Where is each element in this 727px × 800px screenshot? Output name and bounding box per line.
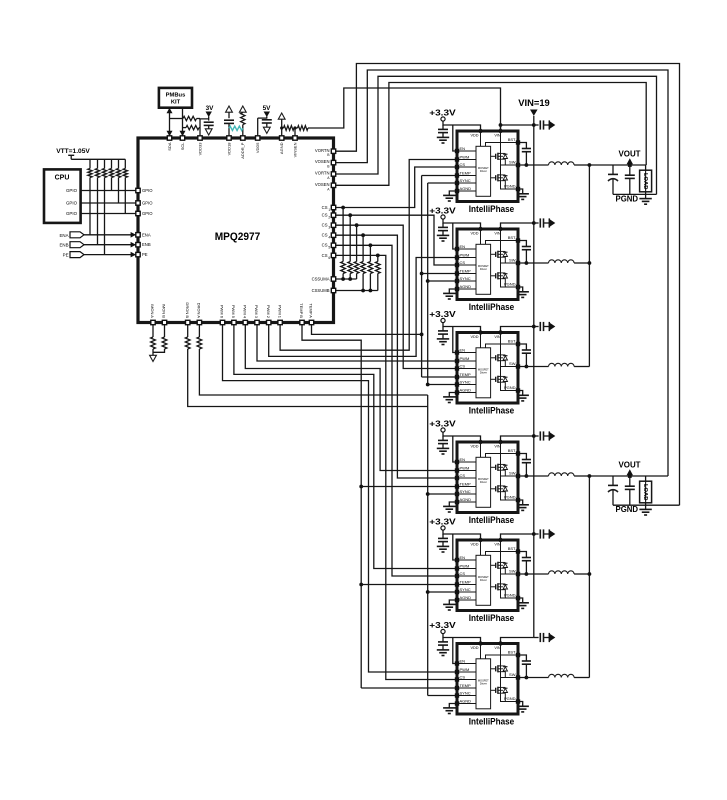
U4 right pins xyxy=(516,342,520,346)
svg-text:CS: CS xyxy=(460,571,466,576)
LOAD 1 xyxy=(645,165,647,194)
+3.3V wire to U4 VDD xyxy=(443,323,481,333)
PMBus KIT box xyxy=(159,88,192,108)
svg-text:VIN: VIN xyxy=(494,335,501,339)
U3 PGND ground xyxy=(520,287,523,292)
U4 low-side MOSFET Q6 xyxy=(495,377,497,382)
U5 internal VDD wire xyxy=(480,442,482,457)
U2 SW node wire xyxy=(501,159,517,165)
svg-text:4: 4 xyxy=(328,236,330,240)
pull-up wires to ENA ENB PE xyxy=(89,178,91,235)
SW wire with inductor L6 xyxy=(520,677,549,679)
U3 internal MOSFET driver xyxy=(476,244,491,294)
CSSUMA rail xyxy=(335,278,356,280)
U5 internal BST wire xyxy=(486,454,517,458)
svg-text:Driver: Driver xyxy=(480,578,487,582)
svg-text:PWM 5: PWM 5 xyxy=(231,305,236,319)
svg-text:SW: SW xyxy=(509,258,516,263)
U4 internal VDD wire xyxy=(480,333,482,348)
U7 HS gate wire xyxy=(491,668,496,670)
U2 HS gate wire xyxy=(491,155,496,157)
+3.3V wire to U5 VDD xyxy=(443,432,481,442)
svg-text:AGND: AGND xyxy=(460,698,472,703)
svg-text:PWM: PWM xyxy=(460,154,470,159)
U6 VDD pin xyxy=(478,538,482,542)
VIN jog wire to U4 xyxy=(501,327,534,333)
svg-text:TEMP: TEMP xyxy=(460,683,471,688)
controller U1 MPQ2977 box xyxy=(138,138,334,323)
IntelliPhase power stage U7 box xyxy=(457,644,518,715)
U4 VIN pin xyxy=(498,330,502,334)
CS3 junction xyxy=(355,223,359,227)
U3 VIN pin xyxy=(498,227,502,231)
svg-text:Driver: Driver xyxy=(480,169,487,173)
svg-text:BST: BST xyxy=(508,448,516,453)
TEMP A wire xyxy=(312,325,422,335)
bootstrap capacitor C3b xyxy=(520,344,527,350)
DRON B resistor R21 xyxy=(187,325,189,338)
CS1 junction xyxy=(341,206,345,210)
VIN distribution rail xyxy=(533,116,535,638)
U7 SW node wire xyxy=(501,672,517,678)
svg-text:DRON A: DRON A xyxy=(197,303,202,319)
svg-text:5: 5 xyxy=(328,246,330,250)
U2 high-side MOSFET Q1 xyxy=(495,154,497,159)
svg-text:SYNC: SYNC xyxy=(460,587,471,592)
IMON ground arrow xyxy=(150,355,157,361)
svg-text:Driver: Driver xyxy=(480,682,487,686)
DRON B wire xyxy=(188,349,428,407)
VIN=19 arrow xyxy=(530,110,538,116)
svg-text:TEMP: TEMP xyxy=(460,579,471,584)
VIN sense chain resistor R5 xyxy=(280,126,283,129)
svg-text:+3.3V: +3.3V xyxy=(429,517,456,527)
+3.3V wire to U6 VDD xyxy=(443,530,481,540)
svg-text:AGND: AGND xyxy=(460,387,472,392)
U4 internal MOSFET driver xyxy=(476,348,491,398)
pull-up wires to GPIO xyxy=(111,178,113,191)
svg-text:3V: 3V xyxy=(206,105,215,112)
svg-text:SDA: SDA xyxy=(167,142,172,151)
IntelliPhase power stage U6 box xyxy=(457,540,518,611)
svg-text:LOAD: LOAD xyxy=(642,173,648,189)
VTT tick xyxy=(68,154,74,156)
decoupling capacitor C1a xyxy=(442,125,444,129)
svg-text:BST: BST xyxy=(508,546,516,551)
DRON A resistor R22 xyxy=(198,325,200,338)
U4 HS drain wire to VIN xyxy=(500,333,502,355)
U6 HS drain wire to VIN xyxy=(500,540,502,562)
+3.3V wire to U7 EN xyxy=(453,638,455,664)
CS2 junction xyxy=(348,213,352,217)
CS1 wire xyxy=(335,167,455,208)
U3 left pins xyxy=(455,247,459,251)
CSSUMB rail xyxy=(335,290,377,292)
ENB wire xyxy=(84,244,136,246)
TEMP B wire xyxy=(302,325,361,689)
U2 AGND ground xyxy=(449,191,455,195)
CS6 junction xyxy=(376,254,380,258)
SYNC bus lower xyxy=(427,395,429,696)
svg-text:LOAD: LOAD xyxy=(642,484,648,500)
svg-text:EN: EN xyxy=(460,555,466,560)
IMON B resistor R20 xyxy=(164,325,166,338)
svg-text:Driver: Driver xyxy=(480,480,487,484)
decoupling capacitor C2a xyxy=(442,223,444,227)
U1 bottom pins xyxy=(151,320,155,324)
svg-text:EN: EN xyxy=(460,244,466,249)
U7 LS drain wire xyxy=(500,678,502,688)
U3 LS drain wire xyxy=(500,263,502,273)
phase group B SW bus xyxy=(588,476,590,678)
svg-text:IMON A: IMON A xyxy=(150,304,155,318)
IntelliPhase power stage U5 box xyxy=(457,442,518,513)
ground for C4a xyxy=(437,447,449,449)
U3 internal BST wire xyxy=(486,241,517,245)
svg-text:SYNC: SYNC xyxy=(460,690,471,695)
U7 high-side MOSFET Q11 xyxy=(495,666,497,671)
U7 internal VDD wire xyxy=(480,644,482,659)
CS6 wire xyxy=(335,255,455,679)
VORTN B sense wire xyxy=(335,64,679,506)
U3 low-side MOSFET Q4 xyxy=(495,273,497,278)
bracket wire VDD33 to 3V node xyxy=(200,118,209,120)
svg-text:TEMP: TEMP xyxy=(460,268,471,273)
U6 low-side MOSFET Q10 xyxy=(495,584,497,589)
svg-text:AGND: AGND xyxy=(460,186,472,191)
U1 left pins xyxy=(136,188,140,192)
svg-text:IntelliPhase: IntelliPhase xyxy=(469,302,515,312)
SYNC taps to stages xyxy=(428,182,455,184)
svg-text:PWM: PWM xyxy=(460,465,470,470)
IntelliPhase power stage U4 box xyxy=(457,333,518,404)
U4 PGND ground xyxy=(520,391,523,396)
svg-text:ENA: ENA xyxy=(142,232,151,237)
VTT rail wire xyxy=(71,158,125,160)
U2 left pins xyxy=(455,149,459,153)
svg-text:TEMP: TEMP xyxy=(460,372,471,377)
IntelliPhase power stage U3 box xyxy=(457,229,518,300)
svg-text:VIN: VIN xyxy=(494,543,501,547)
svg-text:2: 2 xyxy=(328,216,330,220)
svg-text:CSSUMA: CSSUMA xyxy=(312,277,330,282)
VIN jog wire to U3 xyxy=(501,223,534,229)
svg-text:VDD: VDD xyxy=(470,232,478,236)
capacitor C_3V xyxy=(204,121,214,123)
U2 internal MOSFET driver xyxy=(476,146,491,196)
svg-text:PWM 3: PWM 3 xyxy=(254,305,259,319)
ground for C3a xyxy=(437,338,449,340)
summing resistor R18 xyxy=(377,255,379,261)
PWM3 wire xyxy=(257,325,455,362)
pull-up resistors R7-R12 xyxy=(89,159,91,168)
U3 internal VDD wire xyxy=(480,229,482,244)
svg-text:BST: BST xyxy=(508,650,516,655)
pull-up resistor R1 on SDA xyxy=(170,118,184,120)
CS4 wire xyxy=(335,235,455,478)
svg-text:ENB: ENB xyxy=(59,243,68,248)
VDD18 decoupling: supply arrow xyxy=(226,106,233,112)
summing resistor R15 xyxy=(356,225,358,261)
U7 low-side MOSFET Q12 xyxy=(495,688,497,693)
TEMP B taps to U5 U6 U7 xyxy=(361,486,455,488)
svg-text:PWM 2: PWM 2 xyxy=(266,305,271,319)
svg-text:VDD18: VDD18 xyxy=(226,142,231,156)
svg-text:PGND: PGND xyxy=(616,505,639,514)
svg-text:PGND: PGND xyxy=(616,194,639,203)
TEMP A taps to U2 U3 U4 xyxy=(422,175,456,177)
summing resistor R17 xyxy=(369,245,371,261)
decoupling capacitor C3a xyxy=(442,327,444,331)
U6 PGND ground xyxy=(520,598,523,603)
SW wire with inductor L2 xyxy=(520,262,549,264)
svg-text:TEMP: TEMP xyxy=(460,170,471,175)
svg-text:VIN: VIN xyxy=(494,232,501,236)
svg-text:SCL: SCL xyxy=(180,142,185,151)
U2 low-side MOSFET Q2 xyxy=(495,175,497,180)
svg-text:SW: SW xyxy=(509,569,516,574)
VDD33 pull-up column wire xyxy=(199,119,201,137)
svg-text:CS: CS xyxy=(322,205,328,210)
svg-text:+3.3V: +3.3V xyxy=(429,309,456,319)
AGND pin arrow xyxy=(278,113,285,119)
U4 SW node wire xyxy=(501,361,517,367)
U5 left pins xyxy=(455,460,459,464)
SW wire with inductor L3 xyxy=(520,366,549,368)
svg-text:+3.3V: +3.3V xyxy=(429,419,456,429)
input capacitor C4in xyxy=(534,435,539,437)
svg-text:CS: CS xyxy=(460,363,466,368)
U3 HS drain wire to VIN xyxy=(500,229,502,251)
U6 internal VDD wire xyxy=(480,540,482,555)
svg-text:TEMP: TEMP xyxy=(460,481,471,486)
svg-text:+3.3V: +3.3V xyxy=(429,108,456,118)
U3 AGND ground xyxy=(449,289,455,293)
decoupling capacitor C6a xyxy=(442,638,444,642)
U5 LS gate wire xyxy=(491,488,496,490)
+3.3V wire to U5 EN xyxy=(453,436,455,462)
svg-text:CS: CS xyxy=(322,213,328,218)
svg-text:SW: SW xyxy=(509,471,516,476)
U7 internal BST wire xyxy=(486,655,517,659)
U6 LS gate wire xyxy=(491,586,496,588)
input capacitor C5in xyxy=(534,533,539,535)
U4 LS drain wire xyxy=(500,367,502,377)
VINSEN pin wire xyxy=(293,126,296,129)
U3 VDD pin xyxy=(478,227,482,231)
svg-text:PWM 1: PWM 1 xyxy=(277,305,282,319)
resistor R4 teal between VDD18 and ADDR xyxy=(229,126,243,130)
svg-text:SYNC: SYNC xyxy=(460,489,471,494)
ground for C6a xyxy=(437,649,449,651)
PGND ground 2 xyxy=(645,505,647,509)
bootstrap capacitor C5b xyxy=(520,552,527,558)
U5 HS gate wire xyxy=(491,466,496,468)
TEMP A bus xyxy=(421,176,423,378)
svg-text:DRON B: DRON B xyxy=(185,302,190,318)
U7 internal MOSFET driver xyxy=(476,659,491,709)
U6 LS drain wire xyxy=(500,574,502,584)
svg-text:CS: CS xyxy=(322,233,328,238)
U5 LS drain wire xyxy=(500,476,502,486)
svg-text:CS: CS xyxy=(322,243,328,248)
U2 VDD pin xyxy=(478,129,482,133)
input capacitor C2in xyxy=(534,222,539,224)
+3.3V wire to U7 VDD xyxy=(443,634,481,644)
PWM6 wire xyxy=(223,325,456,673)
VORTN A sense wire xyxy=(335,76,656,194)
U5 VDD pin xyxy=(478,440,482,444)
U7 LS source wire to PGND xyxy=(501,693,517,701)
U4 VDD pin xyxy=(478,330,482,334)
svg-text:3: 3 xyxy=(328,226,330,230)
U4 high-side MOSFET Q5 xyxy=(495,355,497,360)
+3.3V wire to U3 VDD xyxy=(443,219,481,229)
svg-text:GPIO: GPIO xyxy=(142,188,153,193)
U6 HS gate wire xyxy=(491,564,496,566)
svg-text:VOUT: VOUT xyxy=(619,149,641,158)
input capacitor C6in xyxy=(534,637,539,639)
U6 right pins xyxy=(516,549,520,553)
svg-text:GPIO: GPIO xyxy=(66,211,78,216)
PGND rail 2 xyxy=(613,504,680,506)
svg-text:PE: PE xyxy=(142,252,148,257)
svg-text:VIN: VIN xyxy=(494,134,501,138)
svg-text:VOSEN: VOSEN xyxy=(315,159,330,164)
U2 internal BST wire xyxy=(486,143,517,147)
U7 right pins xyxy=(516,653,520,657)
U5 internal MOSFET driver xyxy=(476,457,491,507)
U3 LS gate wire xyxy=(491,275,496,277)
VDD5 column wire xyxy=(257,118,259,136)
U4 left pins xyxy=(455,350,459,354)
svg-text:VDD: VDD xyxy=(470,335,478,339)
ground for C1a xyxy=(437,136,449,138)
U5 AGND ground xyxy=(449,502,455,506)
CS5 junction xyxy=(369,243,373,247)
summing resistor R13 xyxy=(342,208,344,262)
bootstrap capacitor C4b xyxy=(520,454,527,460)
bootstrap capacitor C2b xyxy=(520,241,527,247)
PWM5 wire xyxy=(234,325,455,569)
svg-text:EN: EN xyxy=(460,347,466,352)
LOAD 2 xyxy=(645,476,647,505)
U5 low-side MOSFET Q8 xyxy=(495,486,497,491)
svg-text:AGND: AGND xyxy=(279,142,284,154)
output capacitor (ceramic) 2 xyxy=(629,476,631,486)
+3.3V wire to U2 VDD xyxy=(443,121,481,131)
svg-text:VORTN: VORTN xyxy=(315,171,330,176)
U6 LS source wire to PGND xyxy=(501,590,517,598)
svg-text:ENB: ENB xyxy=(142,242,151,247)
+3.3V wire to U6 EN xyxy=(453,534,455,560)
svg-text:GPIO: GPIO xyxy=(66,188,78,193)
U5 VIN pin xyxy=(498,440,502,444)
svg-text:Driver: Driver xyxy=(480,371,487,375)
U6 left pins xyxy=(455,558,459,562)
U2 LS drain wire xyxy=(500,165,502,175)
+3.3V wire to U4 EN xyxy=(453,327,455,353)
svg-text:AGND: AGND xyxy=(460,497,472,502)
SW wire with inductor L1 xyxy=(520,164,549,166)
svg-text:TEMP B: TEMP B xyxy=(299,303,304,318)
svg-text:KIT: KIT xyxy=(171,100,181,106)
U1 right pins xyxy=(331,149,335,153)
SW wire with inductor L5 xyxy=(520,573,549,575)
PWM1 wire xyxy=(280,160,455,351)
svg-text:VIN: VIN xyxy=(494,646,501,650)
svg-text:Driver: Driver xyxy=(480,267,487,271)
U4 LS source wire to PGND xyxy=(501,382,517,390)
U3 HS gate wire xyxy=(491,253,496,255)
svg-text:VDD5: VDD5 xyxy=(255,142,260,153)
PGND rail 1 xyxy=(613,193,657,195)
bracket wire VDD5 to 5V node xyxy=(258,117,267,119)
svg-text:CS: CS xyxy=(460,674,466,679)
VIN jog wire to U5 xyxy=(501,436,534,442)
U5 SW node wire xyxy=(501,470,517,476)
svg-text:+3.3V: +3.3V xyxy=(429,620,456,630)
GPIO wires CPU to U1 xyxy=(81,190,137,192)
svg-text:1: 1 xyxy=(328,208,330,212)
VIN jog wire to U6 xyxy=(501,534,534,540)
svg-text:ADDR_P: ADDR_P xyxy=(240,142,245,159)
U2 right pins xyxy=(516,140,520,144)
CPU box xyxy=(44,169,81,223)
U1 top pins xyxy=(167,136,171,140)
svg-text:VOUT: VOUT xyxy=(619,460,641,469)
CS3 wire xyxy=(335,225,455,368)
svg-text:PE: PE xyxy=(63,253,69,258)
svg-text:VDD: VDD xyxy=(470,134,478,138)
PWM4 wire xyxy=(245,325,455,471)
svg-text:GPIO: GPIO xyxy=(142,201,153,206)
U5 high-side MOSFET Q7 xyxy=(495,465,497,470)
svg-text:+3.3V: +3.3V xyxy=(429,206,456,216)
svg-text:TEMP A: TEMP A xyxy=(309,303,314,318)
svg-text:IntelliPhase: IntelliPhase xyxy=(469,613,515,623)
U4 LS gate wire xyxy=(491,378,496,380)
output capacitor (bulk) 1 xyxy=(612,165,614,174)
U6 SW node wire xyxy=(501,568,517,574)
svg-text:BST: BST xyxy=(508,137,516,142)
U4 HS gate wire xyxy=(491,357,496,359)
U3 right pins xyxy=(516,238,520,242)
ADDR pull-up arrow xyxy=(239,106,246,112)
ground for C2a xyxy=(437,234,449,236)
U6 AGND ground xyxy=(449,600,455,604)
VIN jog wire to U2 xyxy=(501,125,534,131)
IntelliPhase power stage U2 box xyxy=(457,131,518,202)
U7 VIN pin xyxy=(498,641,502,645)
U2 LS gate wire xyxy=(491,177,496,179)
resistor R3 (sense, teal) xyxy=(241,113,245,125)
svg-text:5V: 5V xyxy=(263,105,272,112)
svg-text:BST: BST xyxy=(508,339,516,344)
CS5 wire xyxy=(335,245,455,576)
ground arrow below C_5V xyxy=(263,127,270,133)
svg-text:CS: CS xyxy=(460,473,466,478)
svg-text:IntelliPhase: IntelliPhase xyxy=(469,717,515,727)
summing resistor R16 xyxy=(362,235,364,261)
U2 VIN pin xyxy=(498,129,502,133)
svg-text:VDD: VDD xyxy=(470,646,478,650)
bootstrap capacitor C6b xyxy=(520,655,527,661)
svg-text:GPIO: GPIO xyxy=(142,211,153,216)
U7 left pins xyxy=(455,661,459,665)
svg-text:IMON B: IMON B xyxy=(162,304,167,319)
svg-text:CSSUMB: CSSUMB xyxy=(312,288,330,293)
